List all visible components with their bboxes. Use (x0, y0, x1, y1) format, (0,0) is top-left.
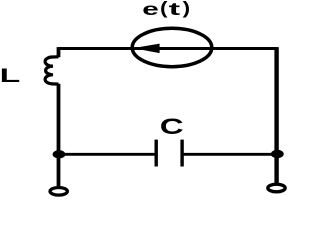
wire bottom right (capacitor to junction) (184, 153, 278, 156)
voltage source arrowhead (133, 44, 160, 54)
wire right vertical (274, 47, 278, 184)
wire left vertical upper (57, 47, 61, 57)
svg-text:t: t (169, 0, 181, 19)
capacitor C right plate (180, 140, 183, 167)
inductor L coil (45, 57, 58, 84)
svg-text:L: L (0, 64, 20, 86)
junction dot right (271, 150, 284, 158)
svg-text:): ) (183, 0, 190, 18)
wire bottom left (junction to capacitor) (59, 153, 155, 156)
svg-text:(: ( (160, 0, 168, 18)
terminal right (open circle) (268, 184, 285, 192)
svg-text:C: C (160, 114, 184, 138)
wire left vertical lower (coil to junction to terminal) (57, 84, 61, 188)
junction dot left (53, 150, 66, 158)
terminal left (open circle) (50, 188, 67, 196)
svg-text:e: e (142, 0, 159, 19)
capacitor C left plate (154, 140, 157, 167)
voltage source e(t) U1 ellipse (132, 28, 212, 66)
wire top from left corner to right corner (arrow shaft through source) (59, 47, 277, 50)
